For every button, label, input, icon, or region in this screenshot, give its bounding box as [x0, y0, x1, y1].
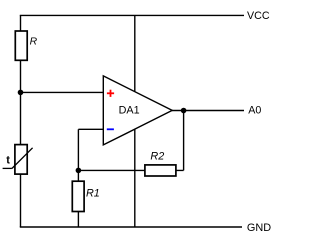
svg-text:VCC: VCC — [247, 10, 270, 22]
svg-text:R1: R1 — [86, 188, 100, 200]
svg-text:R2: R2 — [150, 151, 164, 163]
svg-text:R: R — [30, 37, 38, 48]
svg-text:GND: GND — [247, 222, 271, 234]
svg-text:A0: A0 — [248, 105, 261, 117]
svg-text:DA1: DA1 — [119, 105, 140, 117]
svg-text:t: t — [6, 154, 10, 166]
